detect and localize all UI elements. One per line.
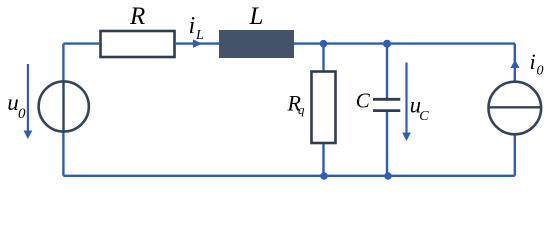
svg-text:R: R [129,3,145,30]
svg-text:i: i [189,13,196,39]
svg-text:i: i [530,49,536,74]
svg-text:0: 0 [18,106,26,122]
svg-text:0: 0 [537,64,544,79]
svg-text:q: q [298,102,305,117]
svg-text:C: C [356,88,371,112]
svg-text:C: C [419,109,429,124]
svg-text:L: L [195,28,204,43]
svg-text:L: L [249,3,264,30]
svg-text:u: u [7,90,19,115]
